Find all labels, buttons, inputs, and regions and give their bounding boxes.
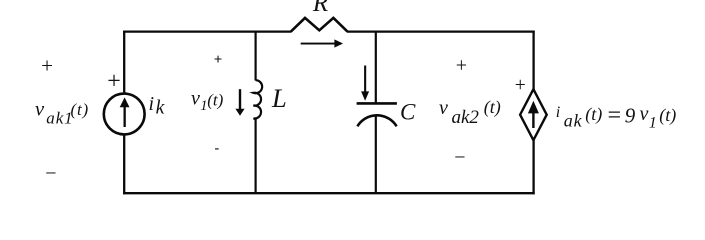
svg-text:(t): (t) xyxy=(71,100,89,119)
wire capacitor branch upper xyxy=(375,32,377,103)
svg-text:+: + xyxy=(41,54,53,78)
svg-text:ak1: ak1 xyxy=(46,108,73,127)
svg-text:(t): (t) xyxy=(659,105,676,126)
wire top-right segment xyxy=(347,30,535,32)
svg-text:(t): (t) xyxy=(585,104,602,125)
capacitor C curved bottom plate xyxy=(357,115,396,126)
down arrow next to v1 label xyxy=(235,89,244,116)
svg-text:(t): (t) xyxy=(484,97,501,118)
svg-text:v: v xyxy=(191,88,200,110)
resistor current arrow xyxy=(301,39,343,47)
wire inductor branch lower xyxy=(255,119,257,193)
svg-text:(t): (t) xyxy=(207,90,223,109)
wire left upper xyxy=(123,31,125,95)
svg-text:i: i xyxy=(556,104,560,121)
svg-text:v: v xyxy=(439,97,448,119)
svg-text:C: C xyxy=(400,99,416,124)
svg-text:−: − xyxy=(454,146,465,168)
svg-text:=: = xyxy=(606,103,622,129)
svg-text:−: − xyxy=(45,163,56,185)
svg-text:v: v xyxy=(35,99,45,121)
wire right upper xyxy=(532,31,534,90)
svg-text:i: i xyxy=(149,93,155,115)
wire inductor branch upper xyxy=(255,32,257,81)
inductor L coil xyxy=(253,80,262,119)
svg-text:+: + xyxy=(107,68,121,94)
capacitor C top plate xyxy=(357,102,397,105)
svg-text:R: R xyxy=(312,0,328,17)
capacitor current arrow xyxy=(361,66,369,101)
svg-text:v: v xyxy=(640,103,649,125)
svg-text:k: k xyxy=(156,98,165,119)
wire bottom xyxy=(123,192,535,194)
svg-text:ak: ak xyxy=(564,111,583,131)
wire right lower xyxy=(532,140,534,195)
svg-text:9: 9 xyxy=(625,104,636,128)
svg-text:+: + xyxy=(214,52,223,68)
svg-text:L: L xyxy=(271,83,287,113)
current source Ik arrow xyxy=(120,97,130,127)
wire top-left segment xyxy=(123,30,291,32)
dependent source arrow xyxy=(528,101,539,128)
svg-text:+: + xyxy=(515,75,526,96)
svg-text:ak2: ak2 xyxy=(452,107,480,128)
wire left lower xyxy=(123,134,125,194)
resistor R zigzag xyxy=(291,18,347,32)
svg-text:+: + xyxy=(456,54,467,76)
dependent source diamond xyxy=(520,89,547,140)
wire capacitor branch lower xyxy=(375,116,377,194)
current source Ik circle xyxy=(104,94,145,135)
svg-text:1: 1 xyxy=(649,114,657,131)
svg-text:-: - xyxy=(214,141,219,156)
